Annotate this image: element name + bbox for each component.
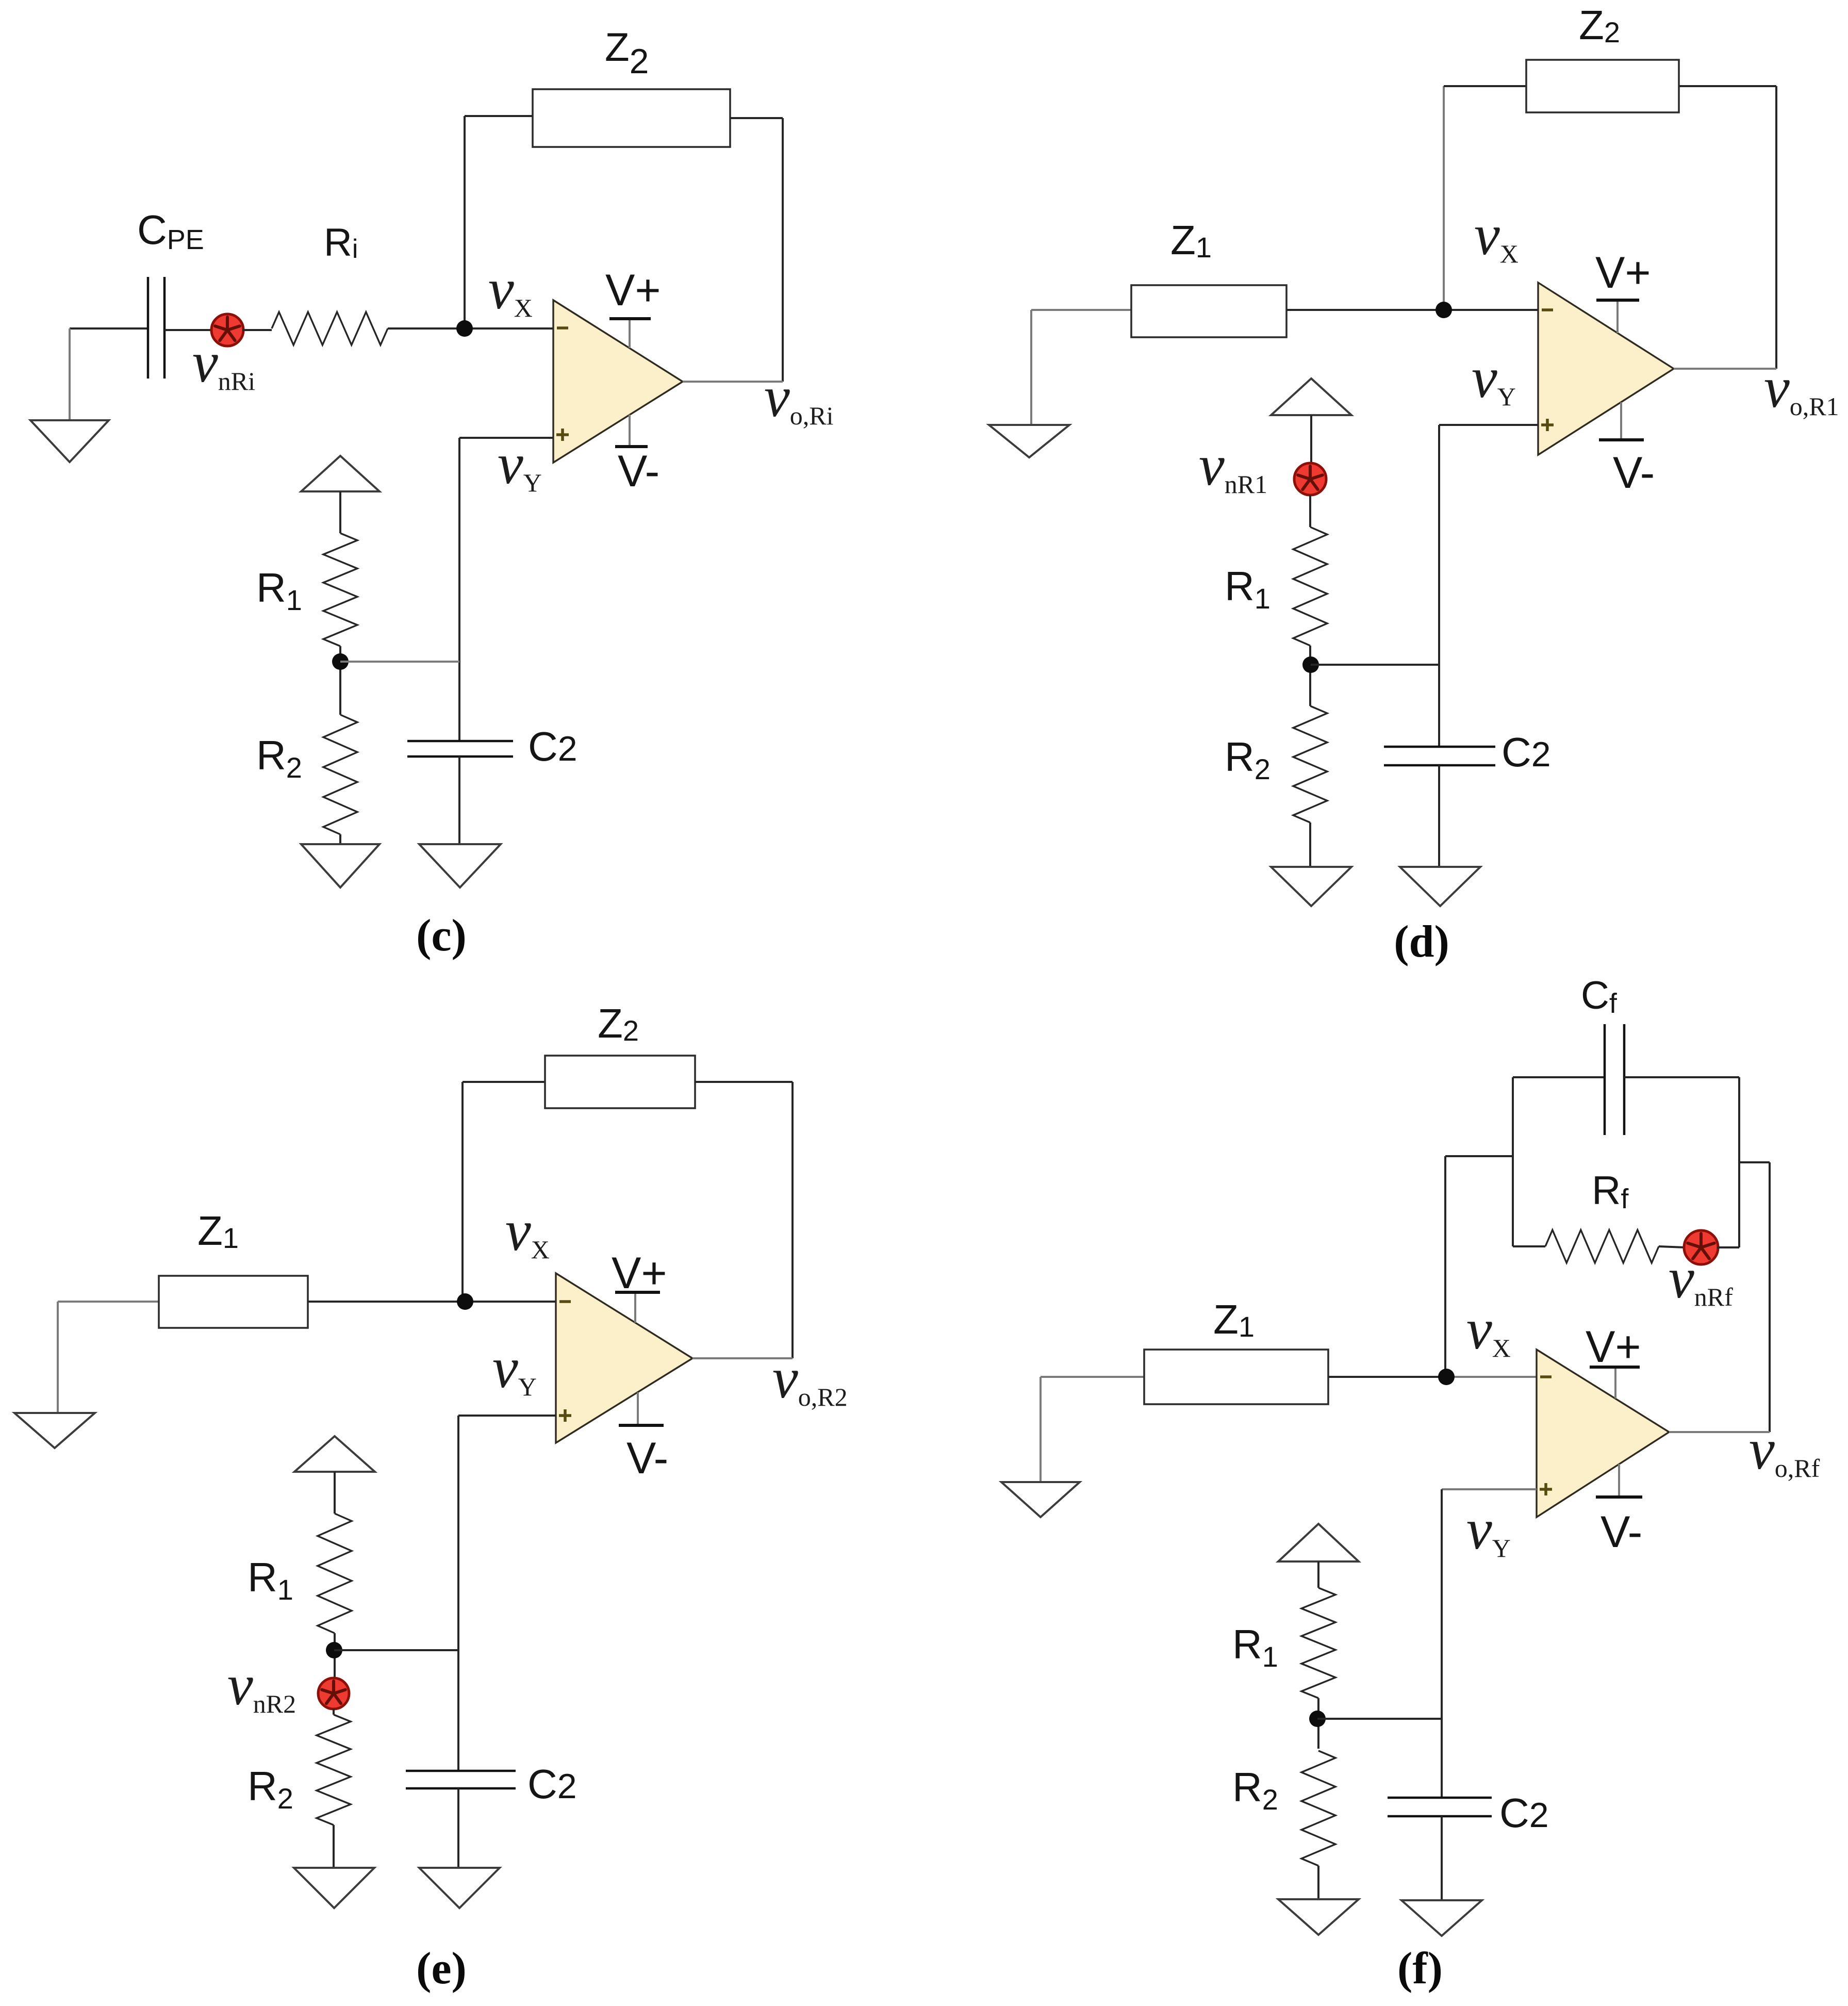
- wire R2 to ground (c): [339, 834, 341, 844]
- wire vY vertical to C2 (d): [1438, 425, 1440, 747]
- resistor R2 (e): [317, 1715, 351, 1825]
- wire op-amp output (d): [1674, 368, 1776, 370]
- op-amp (d): [1538, 283, 1674, 455]
- wire input to Z1 (e): [58, 1301, 159, 1303]
- wire Cf branch right (f): [1624, 1076, 1739, 1078]
- noise source vnRi (c): [211, 314, 243, 346]
- wire R2 to ground (e): [333, 1825, 335, 1868]
- wire noise source to R2 (e): [333, 1709, 335, 1715]
- power rail above R1 (e): [294, 1436, 375, 1472]
- wire Z1 to inverting input (e): [308, 1301, 556, 1303]
- power rail above R1 (d): [1271, 379, 1351, 415]
- op-amp (e): [556, 1273, 692, 1443]
- wire ground stub left (c): [69, 328, 71, 420]
- op-amp non-inverting input marker (+): [1540, 1483, 1552, 1495]
- impedance Z2 box (c): [533, 89, 730, 147]
- node vX (e): [457, 1293, 473, 1310]
- op-amp (f): [1537, 1350, 1669, 1517]
- wire input to Z1 (d): [1031, 309, 1131, 311]
- wire junction to vY line (e): [334, 1649, 458, 1651]
- impedance Z2 box (e): [545, 1056, 695, 1108]
- svg-text:(c): (c): [416, 911, 467, 961]
- wire Z1 to inverting input (d): [1286, 309, 1538, 311]
- svg-text:C2: C2: [1499, 1790, 1549, 1836]
- wire CPE to noise source (c): [164, 329, 212, 331]
- wire vY to non-inverting input (f): [1442, 1488, 1537, 1490]
- wire R2 to ground (d): [1309, 823, 1311, 867]
- impedance Z1 box (e): [159, 1276, 308, 1328]
- svg-text:V-: V-: [1600, 1507, 1642, 1557]
- wire power to R1 (e): [334, 1472, 336, 1514]
- ground under R2 (c): [301, 844, 379, 887]
- power rail above R1 (f): [1278, 1524, 1359, 1561]
- node vX (f): [1438, 1369, 1455, 1385]
- wire C2 to ground (c): [458, 757, 460, 844]
- wire feedback right vertical (c): [782, 118, 784, 382]
- wire op-amp output (c): [683, 381, 783, 383]
- wire noise source to Ri (c): [242, 329, 272, 331]
- resistor R2 (c): [323, 715, 357, 834]
- wire feedback right vertical (e): [791, 1082, 794, 1358]
- wire feedback right horizontal (f): [1739, 1161, 1770, 1163]
- wire loop left edge (f): [1512, 1077, 1514, 1246]
- ground under R2 (d): [1271, 867, 1351, 906]
- node vX (d): [1435, 302, 1452, 318]
- wire op-amp output (f): [1669, 1431, 1770, 1433]
- ground left (e): [14, 1413, 95, 1448]
- ground under R2 (f): [1278, 1899, 1359, 1935]
- wire Z2 feedback top-right (c): [730, 117, 783, 119]
- capacitor CPE (c): [148, 277, 164, 379]
- resistor Ri (c): [272, 312, 388, 345]
- capacitor Cf (f): [1605, 1024, 1624, 1135]
- wire junction to vY line (d): [1311, 664, 1439, 666]
- wire node to inverting input (f): [1446, 1376, 1537, 1378]
- wire Z2 feedback top-right (e): [695, 1081, 793, 1083]
- power rail above R1 (c): [301, 456, 379, 491]
- ground left (c): [30, 420, 109, 462]
- impedance Z1 box (d): [1131, 285, 1286, 337]
- impedance Z2 box (d): [1526, 60, 1679, 112]
- wire Z2 feedback top-right (d): [1679, 85, 1776, 87]
- op-amp inverting input marker (-): [1540, 1375, 1552, 1378]
- wire noise source to R1 (d): [1309, 495, 1311, 527]
- wire power to R1 (f): [1317, 1561, 1319, 1588]
- capacitor C2 (f): [1388, 1798, 1492, 1816]
- wire feedback left horizontal (f): [1445, 1155, 1513, 1157]
- wire input to CPE (c): [70, 327, 148, 330]
- wire Z2 feedback left vertical (d): [1443, 86, 1445, 310]
- op-amp inverting input marker (-): [1542, 308, 1553, 311]
- wire Cf branch left (f): [1513, 1076, 1605, 1078]
- wire feedback right vertical (f): [1769, 1162, 1771, 1432]
- svg-text:(d): (d): [1394, 917, 1449, 967]
- power V+ bar (c): [609, 319, 651, 348]
- resistor R1 (f): [1301, 1588, 1335, 1698]
- wire power to noise source (d): [1310, 415, 1312, 466]
- wire vY vertical to C2 (f): [1441, 1489, 1443, 1798]
- capacitor C2 (d): [1384, 747, 1495, 765]
- op-amp inverting input marker (-): [559, 1300, 571, 1303]
- power V+ bar (e): [615, 1292, 660, 1323]
- power V- bar (c): [615, 415, 648, 447]
- wire ground stub (f): [1039, 1377, 1042, 1482]
- wire Z2 feedback left vertical (e): [461, 1082, 464, 1302]
- noise source vnRf (f): [1684, 1230, 1718, 1264]
- ground under C2 (e): [419, 1868, 500, 1908]
- resistor R2 (d): [1293, 706, 1327, 823]
- wire vY vertical to C2 (e): [457, 1416, 459, 1771]
- wire junction to vY line (f): [1317, 1718, 1442, 1720]
- resistor R2 (f): [1301, 1751, 1335, 1866]
- wire Z2 feedback top-left (d): [1444, 85, 1526, 87]
- wire Z2 feedback top-left (e): [463, 1081, 545, 1083]
- power V- bar (d): [1599, 402, 1644, 440]
- wire C2 to ground (e): [457, 1788, 459, 1868]
- svg-text:V+: V+: [1586, 1322, 1641, 1372]
- wire R2 to ground (f): [1317, 1866, 1319, 1899]
- wire R1 to noise source (e): [334, 1633, 336, 1678]
- resistor Rf (f): [1545, 1230, 1659, 1263]
- wire Ri to inverting input (c): [388, 327, 553, 330]
- ground under R2 (e): [294, 1868, 374, 1908]
- wire ground stub (d): [1030, 310, 1032, 425]
- resistor R1 (c): [323, 533, 357, 646]
- node R1-R2 junction (d): [1302, 656, 1319, 673]
- power V+ bar (f): [1590, 1367, 1640, 1399]
- wire op-amp output (e): [692, 1357, 793, 1359]
- ground left (f): [1001, 1482, 1080, 1517]
- wire Rf to noise source (f): [1659, 1246, 1685, 1247]
- op-amp non-inverting input marker (+): [1541, 419, 1554, 431]
- op-amp inverting input marker (-): [557, 326, 568, 330]
- wire C2 to ground (d): [1438, 765, 1440, 867]
- noise source vnR1 (d): [1294, 463, 1326, 495]
- capacitor C2 (e): [406, 1771, 516, 1788]
- op-amp non-inverting input marker (+): [556, 429, 569, 441]
- wire vY to non-inverting input (d): [1439, 424, 1538, 426]
- node R1-R2 junction (f): [1309, 1711, 1326, 1727]
- capacitor C2 (c): [407, 741, 513, 757]
- svg-text:V+: V+: [1595, 248, 1651, 298]
- resistor R1 (e): [318, 1514, 352, 1633]
- power V+ bar (d): [1596, 300, 1639, 333]
- impedance Z1 box (f): [1144, 1350, 1328, 1404]
- ground left (d): [989, 425, 1069, 457]
- wire C2 to ground (f): [1441, 1816, 1443, 1900]
- svg-text:C2: C2: [527, 1761, 577, 1807]
- wire feedback left vertical (f): [1444, 1156, 1446, 1377]
- node R1-R2 junction (c): [332, 653, 349, 670]
- svg-text:V-: V-: [626, 1434, 668, 1483]
- wire Z2 feedback left vertical (c): [464, 116, 466, 328]
- wire Z2 feedback top-left (c): [465, 115, 533, 117]
- node vX (c): [456, 320, 473, 337]
- svg-text:V+: V+: [605, 266, 661, 315]
- svg-text:V+: V+: [612, 1248, 667, 1298]
- wire vY vertical to C2 (c): [458, 438, 460, 741]
- resistor R1 (d): [1293, 527, 1327, 646]
- svg-text:C2: C2: [528, 724, 577, 769]
- wire vY to non-inverting input (e): [458, 1415, 556, 1417]
- ground under C2 (f): [1401, 1900, 1482, 1936]
- wire vY to non-inverting input (c): [459, 437, 553, 439]
- wire input to Z1 (f): [1041, 1376, 1144, 1378]
- power V- bar (f): [1596, 1464, 1642, 1497]
- wire Rf stub left (f): [1513, 1245, 1545, 1247]
- wire noise source to loop right (f): [1717, 1246, 1739, 1248]
- wire feedback right vertical (d): [1775, 86, 1777, 369]
- wire junction to vY line (c): [340, 661, 459, 663]
- power V- bar (e): [619, 1392, 664, 1425]
- svg-text:(e): (e): [416, 1944, 467, 1994]
- ground under C2 (c): [419, 844, 501, 887]
- wire R1 to R2 (d): [1309, 646, 1311, 706]
- wire R1 to R2 (c): [339, 646, 341, 715]
- wire R1 to R2 (f): [1317, 1698, 1319, 1749]
- noise source vnR2 (e): [318, 1678, 349, 1709]
- svg-text:V-: V-: [618, 447, 659, 496]
- op-amp non-inverting input marker (+): [559, 1409, 571, 1422]
- ground under C2 (d): [1400, 867, 1480, 906]
- wire power to R1 (c): [339, 491, 341, 533]
- wire Z1 to node (f): [1328, 1376, 1446, 1378]
- svg-text:(f): (f): [1397, 1944, 1443, 1994]
- svg-text:V-: V-: [1613, 448, 1655, 498]
- svg-text:C2: C2: [1501, 729, 1551, 775]
- wire loop right edge (f): [1738, 1077, 1740, 1247]
- op-amp (c): [553, 300, 683, 463]
- node R1-R2 junction (e): [326, 1642, 342, 1658]
- wire ground stub (e): [57, 1302, 59, 1413]
